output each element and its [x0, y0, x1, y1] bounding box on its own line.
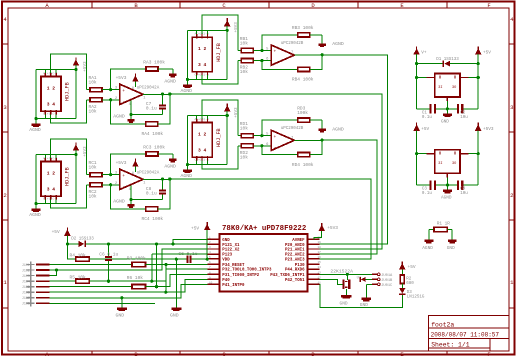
- ground GND (left): [121, 298, 123, 308]
- svg-text:14: 14: [318, 266, 322, 269]
- wire P43 to JU1A: [319, 273, 372, 275]
- wire J1-6 to MCU P40: [50, 279, 208, 292]
- wire reg input pin: [417, 77, 427, 79]
- wire sensor D bottom 1: [187, 164, 227, 166]
- wire op-amp D output: [294, 139, 322, 141]
- svg-text:J103: J103: [22, 274, 30, 278]
- svg-text:C1: C1: [422, 111, 428, 115]
- sensor SB pins: [196, 34, 198, 38]
- resistor RA3 100k: [146, 67, 158, 71]
- resistor R6 10k: [132, 285, 146, 289]
- wire sensor B bottom 2: [202, 61, 238, 84]
- svg-text:R2: R2: [406, 277, 412, 281]
- junction sensor A gnd: [35, 117, 38, 120]
- svg-text:10k: 10k: [240, 41, 248, 47]
- svg-text:3: 3: [3, 104, 6, 111]
- wire reg gnd pin: [446, 97, 448, 101]
- connector J1 header bar: [30, 262, 32, 307]
- svg-text:C6 0.1u: C6 0.1u: [99, 251, 118, 257]
- svg-text:J108: J108: [22, 302, 30, 306]
- capacitor C8 0.1u: [162, 194, 164, 200]
- frame column ticks bottom: [91, 351, 93, 355]
- junction X1 node: [346, 273, 349, 276]
- MCU pin 13 P43_TXD6_INTP1: [307, 273, 319, 275]
- svg-text:uPC29042A: uPC29042A: [137, 171, 160, 175]
- svg-text:P122_X2: P122_X2: [222, 249, 240, 253]
- wire riser r1-r5: [156, 265, 158, 287]
- wire sensor A bottom 2: [51, 100, 87, 123]
- wire J1-1 to R3: [50, 264, 132, 266]
- connector J1 pin 4: [27, 280, 35, 282]
- op-amp UA uPC29042A: [120, 84, 143, 104]
- MCU pin 1 GND: [208, 238, 220, 240]
- wire J1-8: [50, 302, 155, 304]
- svg-text:AGND: AGND: [332, 41, 344, 47]
- svg-text:Sheet: 1/1: Sheet: 1/1: [431, 341, 470, 348]
- sensor SC pins: [44, 158, 46, 162]
- photo sensor SC HDJ_FB: [41, 162, 61, 197]
- jumper pin JU1B: [372, 278, 377, 280]
- svg-text:0.1u: 0.1u: [146, 106, 157, 112]
- svg-text:R1 1R: R1 1R: [437, 221, 451, 226]
- svg-text:10u: 10u: [460, 192, 468, 196]
- svg-text:10u: 10u: [460, 116, 468, 120]
- resistor R2 680: [400, 275, 404, 284]
- power +5V3 (sensor A): [73, 59, 80, 65]
- wire J1-7 to MCU P41: [50, 284, 208, 298]
- wire op-amp C output: [143, 178, 170, 180]
- wire J1-2 to MCU X1 row: [50, 249, 208, 270]
- svg-text:0.1u: 0.1u: [422, 192, 433, 196]
- ground AGND (sensor B): [183, 84, 192, 87]
- resistor RC4 100k: [146, 207, 158, 211]
- svg-text:+5V: +5V: [52, 229, 60, 235]
- svg-text:15: 15: [318, 261, 322, 264]
- power +5V3 (AVREF): [314, 231, 322, 240]
- wire RB4 bottom leg: [262, 61, 298, 70]
- ground AGND (RD3): [321, 120, 323, 129]
- svg-text:+5V: +5V: [421, 127, 429, 132]
- svg-text:J101: J101: [22, 263, 30, 267]
- svg-text:10k: 10k: [240, 154, 248, 160]
- wire sensor C upper loop: [51, 139, 87, 175]
- MCU pin 12 P42_TO51: [307, 278, 319, 280]
- connector J1 pin 2: [27, 269, 35, 271]
- wire reg output pin: [460, 77, 468, 79]
- photo sensor SD HDJ_FB: [192, 123, 212, 158]
- wire net OUT_C: [170, 179, 371, 259]
- junction cap C8: [161, 177, 164, 180]
- ground AGND (RC3): [172, 154, 174, 159]
- svg-text:JU01B: JU01B: [381, 279, 393, 283]
- junction op-amp D output: [321, 138, 324, 141]
- svg-text:GND: GND: [170, 313, 179, 319]
- svg-text:C4: C4: [460, 188, 466, 192]
- svg-text:R3 100k: R3 100k: [127, 256, 146, 262]
- svg-text:R5 10k: R5 10k: [70, 274, 87, 280]
- wire sensor D upper loop: [202, 100, 238, 136]
- svg-text:+5V3: +5V3: [116, 160, 127, 166]
- svg-text:HDJ_FB: HDJ_FB: [65, 167, 71, 186]
- svg-text:+5V: +5V: [191, 226, 199, 232]
- svg-text:F: F: [487, 2, 490, 9]
- connector J1 pin 6: [27, 291, 35, 293]
- svg-text:AGND: AGND: [332, 126, 344, 132]
- wire J1-3 jog to J1-2 net: [50, 270, 57, 276]
- svg-text:3 4: 3 4: [47, 186, 56, 192]
- capacitor C3 0.1u: [417, 184, 430, 186]
- svg-text:GND: GND: [360, 302, 368, 308]
- frame row ticks right: [509, 43, 515, 45]
- svg-text:HDJ_FB: HDJ_FB: [65, 82, 71, 101]
- wire RB3 top leg: [262, 35, 298, 51]
- ground AGND (sensor A): [32, 124, 41, 127]
- svg-text:V+: V+: [421, 51, 427, 56]
- capacitor C5 0.1u: [108, 244, 110, 256]
- junction sensor A +5V3: [74, 68, 77, 71]
- jumper pin JU1A: [372, 273, 377, 275]
- wire op-amp A output: [143, 93, 170, 95]
- svg-text:1 2: 1 2: [198, 131, 207, 137]
- wire P42 to D3: [319, 284, 402, 307]
- svg-text:RC3 100k: RC3 100k: [143, 144, 165, 150]
- svg-text:3O: 3O: [452, 162, 456, 166]
- junction RD2 node: [260, 144, 263, 147]
- svg-text:18: 18: [318, 246, 322, 249]
- photo sensor SB HDJ_FB: [192, 37, 212, 72]
- svg-text:0.1u: 0.1u: [422, 116, 433, 120]
- wire reg input pin: [417, 153, 427, 155]
- power +5V3 (sensor D): [224, 105, 231, 111]
- svg-text:RB3 100k: RB3 100k: [292, 25, 314, 31]
- svg-text:C3: C3: [422, 188, 428, 192]
- svg-text:10k: 10k: [89, 193, 97, 199]
- svg-text:RB4 100k: RB4 100k: [292, 77, 314, 83]
- title block: [429, 316, 510, 352]
- wire RA3 top leg: [111, 69, 146, 90]
- MCU pin 8 P31_TI000_INTP2: [208, 273, 220, 275]
- junction D1 left: [415, 62, 418, 65]
- wire sensor A bottom 1: [36, 118, 76, 120]
- svg-text:4: 4: [129, 188, 131, 192]
- LED D3 LN1251G: [401, 284, 403, 289]
- svg-text:AGND: AGND: [181, 88, 193, 94]
- junction RD1 node: [260, 134, 263, 137]
- resistor RD3 100k: [298, 118, 310, 122]
- svg-text:3I: 3I: [438, 86, 442, 90]
- MCU pin 19 P20_ANI0: [307, 243, 319, 245]
- MCU pin 2 P121_X1: [208, 243, 220, 245]
- svg-text:AGND: AGND: [164, 79, 176, 85]
- junction V- C: [129, 198, 132, 201]
- wire sensor D supply rail: [187, 115, 227, 117]
- junction VDD: [206, 258, 209, 261]
- MCU pin 4 P123: [208, 253, 220, 255]
- svg-text:P21_ANI1: P21_ANI1: [285, 249, 305, 253]
- svg-text:C2: C2: [460, 111, 466, 115]
- junction op-amp A output: [168, 92, 171, 95]
- op-amp UC uPC29042A: [120, 169, 143, 189]
- wire reg right leg: [477, 130, 479, 185]
- svg-text:-: -: [122, 100, 125, 105]
- junction C5 bottom: [107, 280, 110, 283]
- svg-text:HDJ_FB: HDJ_FB: [216, 43, 222, 62]
- wire op-amp A V- leg: [131, 99, 163, 115]
- voltage regulator IC (+5V out): [435, 74, 460, 98]
- svg-text:+5V3: +5V3: [327, 225, 338, 231]
- resistor RD2 10k: [238, 145, 241, 147]
- resistor RD1 10k: [238, 135, 241, 137]
- MCU pin 3 P122_X2: [208, 248, 220, 250]
- photo sensor SA HDJ_FB: [41, 77, 61, 112]
- ground AGND (sensor C): [32, 209, 41, 212]
- svg-text:0.1u: 0.1u: [146, 191, 157, 197]
- svg-text:P31_TI000_INTP2: P31_TI000_INTP2: [222, 274, 259, 278]
- svg-text:J107: J107: [22, 296, 30, 300]
- svg-text:J106: J106: [22, 291, 30, 295]
- ground GND (R1): [451, 230, 453, 240]
- svg-text:17: 17: [318, 251, 322, 254]
- junction RC1 node: [109, 173, 112, 176]
- wire sensor D +5V drop: [226, 116, 228, 165]
- svg-text:1 2: 1 2: [47, 170, 56, 176]
- wire J1-5 through R6: [50, 286, 132, 288]
- wire reg left leg: [416, 54, 418, 109]
- svg-text:GND: GND: [447, 246, 455, 251]
- svg-text:AGND: AGND: [422, 246, 433, 251]
- capacitor C6 0.1u (VDD): [186, 256, 188, 263]
- power +5V (reg in): [413, 124, 420, 130]
- MCU pin 6 P34_RESET: [208, 263, 220, 265]
- svg-text:GND: GND: [222, 239, 230, 243]
- svg-text:P42_TO51: P42_TO51: [285, 279, 305, 283]
- op-amp UD uPC29042B: [271, 130, 294, 150]
- svg-text:JU01C: JU01C: [381, 284, 393, 288]
- wire RC3 top leg: [111, 154, 146, 175]
- MCU pin 15 P130: [307, 263, 319, 265]
- svg-text:F: F: [487, 351, 490, 357]
- svg-text:10: 10: [209, 281, 213, 284]
- MCU pin 7 P32_TOOL0_TO00_INTP3: [208, 268, 220, 270]
- ground AGND (RB3): [321, 35, 323, 44]
- svg-text:J102: J102: [22, 268, 30, 272]
- svg-text:10k: 10k: [240, 126, 248, 132]
- svg-text:4: 4: [129, 103, 131, 107]
- svg-text:HDJ_FB: HDJ_FB: [216, 128, 222, 147]
- svg-text:R4 10k: R4 10k: [70, 252, 87, 258]
- wire RA4 bottom leg: [111, 100, 146, 124]
- svg-text:RD4 100k: RD4 100k: [292, 162, 314, 168]
- wire op-amp C V- leg: [131, 184, 163, 200]
- wire sensor A supply rail: [36, 69, 76, 71]
- svg-text:P43_TXD6_INTP1: P43_TXD6_INTP1: [270, 274, 305, 278]
- svg-text:AVREF: AVREF: [292, 239, 305, 243]
- sensor SA pins: [44, 73, 46, 77]
- ground AGND (R1): [428, 230, 430, 240]
- svg-text:RA3 100k: RA3 100k: [143, 59, 165, 65]
- junction reg gnd: [446, 107, 449, 110]
- junction sensor B gnd: [186, 78, 189, 81]
- svg-text:1 2: 1 2: [47, 85, 56, 91]
- wire MCU GND row: [173, 239, 208, 244]
- svg-text:10k: 10k: [89, 108, 97, 114]
- svg-text:P130: P130: [295, 264, 305, 268]
- svg-text:-: -: [122, 185, 125, 190]
- svg-text:AGND: AGND: [113, 199, 125, 205]
- wire sensor B left leg: [186, 30, 188, 84]
- svg-text:LN1251G: LN1251G: [407, 295, 425, 299]
- svg-text:D3: D3: [407, 291, 413, 295]
- svg-text:uPC29042B: uPC29042B: [281, 127, 304, 131]
- svg-text:2: 2: [510, 192, 513, 199]
- wire sensor C supply rail: [36, 154, 76, 156]
- svg-text:AGND: AGND: [29, 212, 41, 218]
- resistor R3 100k: [132, 262, 146, 266]
- junction V- A: [129, 113, 132, 116]
- svg-text:16: 16: [318, 256, 322, 259]
- power +5V3 (reg out): [475, 124, 482, 130]
- svg-text:78K0/KA+ uPD78F9222: 78K0/KA+ uPD78F9222: [222, 225, 306, 233]
- capacitor C7 0.1u: [162, 109, 164, 115]
- svg-text:RA4 100k: RA4 100k: [142, 131, 164, 137]
- wire sensor C bottom 1: [36, 203, 76, 205]
- junction op-amp C output: [168, 177, 171, 180]
- junction RB2 node: [260, 59, 263, 62]
- capacitor C4 10u: [436, 184, 457, 186]
- svg-text:680: 680: [406, 282, 414, 286]
- svg-text:P34_RESET: P34_RESET: [222, 264, 245, 268]
- wire sensor C bottom 2: [51, 185, 87, 208]
- ground AGND (sensor D): [183, 170, 192, 173]
- connector J1 pin 8: [27, 302, 35, 304]
- wire reg output pin: [460, 153, 468, 155]
- svg-text:RC4 100k: RC4 100k: [142, 216, 164, 222]
- svg-text:3 4: 3 4: [198, 147, 207, 153]
- power +5V (R2): [399, 263, 406, 269]
- ground AGND (op-amp C): [130, 200, 132, 205]
- junction RA1 node: [109, 88, 112, 91]
- connector J1 pin 1: [27, 264, 35, 266]
- svg-text:-: -: [274, 146, 277, 151]
- frame row ticks left: [2, 43, 8, 45]
- junction RA2 node: [109, 98, 112, 101]
- svg-text:AGND: AGND: [29, 127, 41, 133]
- svg-text:J104: J104: [22, 280, 30, 284]
- svg-text:uPC29042B: uPC29042B: [281, 42, 304, 46]
- svg-text:10k: 10k: [89, 80, 97, 86]
- wire sensor A left leg: [35, 70, 37, 124]
- ground AGND (op-amp A): [130, 115, 132, 120]
- resistor RB1 10k: [238, 50, 241, 52]
- svg-text:-: -: [274, 60, 277, 65]
- junction D1 right: [477, 62, 480, 65]
- diode D2 1SS133: [67, 243, 78, 245]
- wire U2 to JU1B: [366, 278, 372, 280]
- MCU pin 5 VDD: [208, 258, 220, 260]
- wire net OUT_D: [320, 140, 377, 254]
- svg-text:AGND: AGND: [181, 173, 193, 179]
- svg-text:P32_TOOL0_TO00_INTP3: P32_TOOL0_TO00_INTP3: [222, 269, 272, 273]
- svg-text:+5V: +5V: [408, 264, 416, 270]
- svg-text:3 4: 3 4: [47, 101, 56, 107]
- wire reg gnd pin: [446, 173, 448, 177]
- svg-text:P22_ANI2: P22_ANI2: [285, 254, 305, 258]
- jumper pin JU1C: [372, 283, 377, 285]
- wire riser r1-r6: [165, 265, 167, 293]
- power +5V3 (sensor C): [73, 144, 80, 150]
- junction sensor D +5V3: [226, 114, 229, 117]
- junction op-amp B output: [321, 53, 324, 56]
- capacitor C1 0.1u: [417, 108, 430, 110]
- svg-text:GND: GND: [116, 313, 125, 319]
- resistor RA1 10k: [87, 89, 90, 91]
- wire sensor B supply rail: [187, 29, 227, 31]
- junction cap C7: [161, 92, 164, 95]
- wire RD3 top leg: [262, 120, 298, 136]
- svg-text:2008/08/07 11:08:57: 2008/08/07 11:08:57: [431, 332, 500, 339]
- MCU pin 9 P40: [208, 278, 220, 280]
- resistor RA4 100k: [146, 122, 158, 126]
- svg-text:2: 2: [3, 192, 6, 199]
- svg-text:P121_X1: P121_X1: [222, 244, 240, 248]
- wire R3 node riser: [156, 244, 158, 265]
- MCU pin 14 P44_RXD6: [307, 268, 319, 270]
- wire RD4 bottom leg: [262, 146, 298, 155]
- junction C6: [175, 258, 178, 261]
- svg-text:AGND: AGND: [113, 114, 125, 120]
- junction sensor C gnd: [35, 202, 38, 205]
- MCU pin 11 NC: [307, 283, 319, 285]
- svg-text:19: 19: [318, 241, 322, 244]
- wire sensor B +5V drop: [226, 30, 228, 79]
- MCU pin 10 P41_INTP0: [208, 283, 220, 285]
- wire sensor A +5V drop: [75, 70, 77, 119]
- svg-text:uPC29042A: uPC29042A: [137, 86, 160, 90]
- svg-text:D2 1SS133: D2 1SS133: [71, 237, 94, 241]
- svg-text:GND: GND: [441, 119, 449, 124]
- ground AGND (RA3): [172, 69, 174, 74]
- ground GND (X1): [345, 289, 347, 295]
- svg-text:J105: J105: [22, 285, 30, 289]
- svg-text:100k: 100k: [297, 110, 308, 116]
- svg-text:10k: 10k: [89, 165, 97, 171]
- capacitor C2 10u: [436, 108, 457, 110]
- resistor RC2 10k: [87, 184, 90, 186]
- wire net OUT_A: [170, 94, 382, 249]
- resistor RA2 10k: [87, 99, 90, 101]
- power +5V3 (sensor B): [224, 20, 231, 26]
- svg-text:+: +: [122, 174, 125, 179]
- power +5V (reg out): [475, 48, 482, 54]
- resistor RD4 100k: [298, 153, 310, 157]
- wire sensor A upper loop: [51, 54, 87, 90]
- resistor RB3 100k: [298, 33, 310, 37]
- ground AGND (reg): [446, 185, 448, 190]
- connector J1 pin 5: [27, 286, 35, 288]
- resistor R4 10k: [68, 244, 76, 259]
- diode D1 1SS133: [417, 63, 444, 65]
- junction sensor B +5V3: [226, 29, 229, 32]
- svg-text:P20_ANI0: P20_ANI0: [285, 244, 305, 248]
- power V+ (reg in): [413, 48, 420, 54]
- wire MCU P123 row riser: [152, 253, 208, 255]
- svg-text:+: +: [274, 135, 277, 140]
- junction reg pins: [415, 152, 418, 155]
- wire sensor C left leg: [35, 155, 37, 209]
- svg-text:JU01A: JU01A: [381, 274, 393, 278]
- frame column ticks top: [91, 2, 93, 9]
- ground GND (reg): [446, 109, 448, 114]
